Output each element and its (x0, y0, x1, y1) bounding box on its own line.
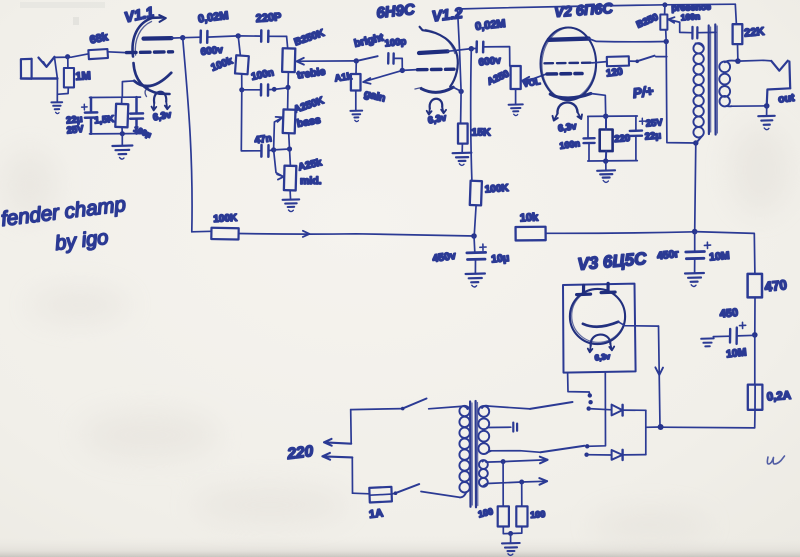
wire 68k to grid (108, 51, 126, 54)
tube V3 heater (588, 335, 614, 353)
switch mains lower (392, 492, 395, 495)
potentiometer B250k presence (660, 5, 667, 42)
wire rail segment 2 (546, 232, 695, 234)
svg-text:6,3v: 6,3v (594, 352, 611, 363)
tube V2 control grid (dashed) (547, 72, 582, 76)
wire cathode rail top (90, 96, 141, 98)
wire cathode rail bottom (90, 133, 141, 135)
node V2 plate junction (664, 39, 669, 44)
node treble bottom (285, 85, 290, 90)
wire secondary bottom (732, 105, 767, 107)
wire mains top (351, 409, 403, 410)
wire down to B+ rail (695, 143, 696, 232)
capacitor 10u 450v (filter 2) (686, 232, 705, 273)
svg-text:P/+: P/+ (632, 83, 655, 101)
signature mark (767, 456, 784, 464)
node 460 cap (752, 332, 758, 338)
tube V3 cathode (583, 322, 618, 327)
capacitor 0,02M 600v (second coupling) (471, 42, 510, 67)
ground humdinger (502, 534, 520, 556)
wire presence wiper (668, 17, 680, 23)
output jack V symbol (767, 61, 791, 106)
tube V1.1 heater (145, 88, 170, 110)
wire 47n to bass bottom (274, 148, 290, 151)
wire gain wiper (365, 70, 402, 81)
svg-text:1A: 1A (368, 507, 383, 521)
resistor 220 (600, 116, 613, 161)
tube V3 socket box (563, 284, 636, 373)
input arrow V (39, 57, 55, 67)
tube V2 screen grid (dashed) (545, 62, 593, 65)
potentiometer A250K bass (283, 88, 296, 149)
tube V3 envelope circle (570, 289, 625, 344)
node 22K / secondary top (735, 58, 741, 64)
capacitor 47n (241, 90, 273, 157)
wire HV bottom to rect switch (490, 451, 541, 453)
node filter 2 (692, 229, 698, 235)
wire plate to node (448, 49, 472, 52)
HV center tap (487, 426, 511, 428)
switch bright lever (360, 56, 378, 60)
power transformer HV secondary (478, 406, 491, 454)
output transformer secondary winding (719, 61, 738, 107)
switch rectifier lower contacts (585, 444, 589, 448)
ground output (758, 106, 774, 130)
resistor 10k (rail) (516, 227, 546, 241)
output transformer primary winding (693, 43, 703, 143)
capacitor 220P (238, 30, 286, 42)
potentiometer A25k mid (284, 149, 296, 199)
wire V3 plate lead B (587, 372, 605, 446)
wire heater output 1 (arrow) (486, 460, 545, 462)
wire diode bus (645, 410, 647, 454)
svg-text:100p: 100p (384, 36, 407, 49)
node input (65, 54, 70, 59)
node bass bottom (287, 146, 292, 151)
capacitor 100u (130, 97, 143, 134)
switch P/+ (629, 60, 637, 62)
tube V1.2 cathode (421, 87, 453, 92)
switch rectifier upper lever (530, 402, 573, 409)
power transformer core (470, 401, 478, 507)
node tone stack input (236, 33, 241, 38)
tube V1.1 plate (144, 36, 172, 41)
tube V2 plate (549, 39, 589, 40)
fuse 0,2A (754, 335, 756, 385)
diode D1 (589, 405, 646, 416)
ground 460 cap (701, 338, 714, 346)
node V1.2 cathode (458, 89, 463, 94)
svg-text:100K: 100K (213, 213, 238, 225)
wire to output jack (738, 59, 771, 62)
svg-text:220: 220 (614, 133, 631, 145)
capacitor 10u 450v (filter 1) (467, 236, 486, 273)
node filter 1 (471, 233, 477, 239)
ground V2 cathode (597, 161, 615, 182)
switch rectifier upper contacts (588, 393, 592, 397)
capacitor 100n presence (692, 27, 716, 39)
svg-text:100n: 100n (680, 11, 700, 22)
node rectifier output (658, 424, 664, 430)
resistor 100 (humdinger left) (502, 462, 504, 507)
wire humdinger join (503, 527, 522, 534)
diode D2 (587, 450, 646, 460)
wire jack to grid node (55, 54, 89, 58)
power transformer primary winding (459, 406, 469, 498)
wire rail down to V1.2 cathode (458, 9, 462, 91)
wire V2 cathode lead (591, 94, 606, 117)
capacitor 22u (V2 cathode) (630, 116, 642, 161)
wire cathode lead (453, 87, 461, 91)
node rail/presence (662, 2, 667, 7)
resistor 100k (V1.2 plate load) (470, 181, 482, 206)
resistor 1.5K (115, 97, 128, 134)
wire network bottom rail (588, 160, 638, 162)
wire to ground (121, 134, 123, 145)
svg-text:10μ: 10μ (491, 252, 510, 266)
tube V1.2 envelope (420, 27, 458, 87)
wire V1.2 plate down to 100k (471, 49, 472, 181)
node V1.1 plate (180, 35, 185, 40)
wire heater output 2 (arrow) (483, 481, 545, 486)
switch mains upper (403, 399, 427, 409)
wire HV top to rect switch (487, 406, 530, 409)
svg-text:220: 220 (285, 443, 314, 463)
node cathode network (120, 131, 125, 136)
svg-text:470: 470 (764, 277, 788, 294)
svg-text:25V: 25V (645, 117, 663, 129)
svg-text:100K: 100K (484, 183, 509, 196)
node 47n right (271, 147, 276, 152)
wire bright node to V1.2 grid (402, 69, 417, 72)
svg-text:1,5K: 1,5K (94, 114, 115, 127)
wire V3 cathode lead (618, 322, 658, 326)
wire V3 plate lead A (568, 373, 590, 396)
node output ground (764, 103, 770, 109)
wire rail to 470 (695, 232, 755, 274)
tube V2 heater (553, 102, 583, 120)
wire rail segment (239, 234, 474, 237)
svg-text:120: 120 (606, 66, 624, 79)
input jack J1 (21, 59, 32, 79)
svg-text:22K: 22K (744, 26, 765, 40)
svg-text:100: 100 (530, 509, 546, 520)
resistor 100k (slope) (235, 36, 249, 90)
tube V3 plate 1 (577, 285, 591, 294)
ground filter 1 (466, 274, 485, 288)
tube V1.1 envelope (133, 15, 170, 94)
wire screen line down (666, 42, 696, 144)
ground filter 2 (685, 273, 704, 287)
V2 cathode network (603, 114, 608, 119)
wire plate to node (172, 37, 183, 39)
tube V1.2 plate (419, 51, 448, 53)
B+ rail (192, 230, 212, 233)
wire mains left vertical (351, 410, 353, 494)
capacitor 100n (V2 cathode) (584, 116, 595, 160)
top rail (NFB/presence) (458, 4, 736, 9)
svg-text:15K: 15K (472, 127, 492, 139)
potentiometer A1k gain (351, 61, 361, 110)
ground V1.2 cathode (453, 153, 472, 166)
potentiometer A250k vol (511, 66, 521, 103)
svg-text:450: 450 (719, 307, 738, 321)
power transformer 6.3V secondary (479, 460, 488, 487)
svg-text:25V: 25V (66, 124, 85, 137)
ground input (51, 102, 62, 113)
node V1.2 plate (469, 46, 474, 51)
capacitor 0,02M 600v (first coupling) (183, 31, 239, 43)
svg-text:10M: 10M (726, 346, 748, 360)
resistor 15K (458, 91, 468, 152)
output transformer core (709, 25, 718, 135)
resistor 100 (humdinger right) (521, 482, 523, 506)
potentiometer B250K treble (282, 36, 295, 87)
wire V2 plate to junction (589, 39, 667, 42)
node 100n left (239, 87, 244, 92)
resistor 22K (NFB) (733, 4, 743, 61)
svg-text:22μ: 22μ (644, 130, 661, 142)
svg-text:out: out (778, 92, 796, 106)
capacitor 22u 25V (85, 98, 97, 134)
node OT primary bottom (693, 140, 698, 145)
svg-text:0,2A: 0,2A (766, 390, 791, 404)
resistor 68k (88, 49, 108, 59)
wire bass wiper (274, 118, 282, 150)
wire mid wiper (274, 150, 283, 176)
wire cathode lead (122, 81, 134, 97)
switch rectifier lower lever (541, 446, 585, 453)
tube V1.1 grid (dashed) (127, 50, 173, 54)
tube V2 envelope (540, 26, 598, 101)
capacitor 10u 460 (713, 328, 755, 344)
wire vol wiper to V2 grid (523, 74, 547, 81)
wire sleeve to ground (56, 79, 58, 102)
wire jack sleeve (21, 77, 58, 79)
wire plate node down to B+ rail (183, 38, 192, 232)
tube V3 plate 2 (601, 283, 615, 292)
capacitor 100p bright (388, 53, 402, 70)
wire network top rail (588, 115, 638, 117)
capacitor 100n (242, 84, 288, 95)
ground vol pot (509, 104, 523, 115)
mains input arrows 220 (324, 439, 351, 446)
resistor 1M (57, 57, 74, 95)
ground V1.1 cathode (112, 146, 132, 160)
tube V1.2 grid (dashed) (418, 67, 455, 71)
tube V2 cathode (550, 94, 591, 98)
svg-text:10k: 10k (520, 212, 540, 225)
svg-text:10M: 10M (709, 250, 731, 264)
resistor 470 (748, 274, 762, 298)
resistor 120 (screen) (592, 62, 607, 63)
node bright/wiper (400, 68, 405, 73)
svg-text:220P: 220P (255, 11, 281, 25)
resistor 100K (rail) (211, 228, 238, 240)
wire input slant (55, 57, 58, 78)
svg-text:mid.: mid. (300, 175, 322, 187)
svg-text:1M: 1M (75, 70, 91, 83)
tube V1.1 cathode (134, 73, 171, 86)
tube V1.2 heater (415, 88, 446, 115)
wire cathode down to node (with arrow) (659, 326, 661, 427)
wire treble wiper (arrow) (298, 60, 357, 63)
bright switch + junction (354, 58, 359, 63)
ground mid pot (283, 199, 300, 211)
ground gain pot (350, 111, 362, 122)
fuse 1A (353, 492, 370, 495)
